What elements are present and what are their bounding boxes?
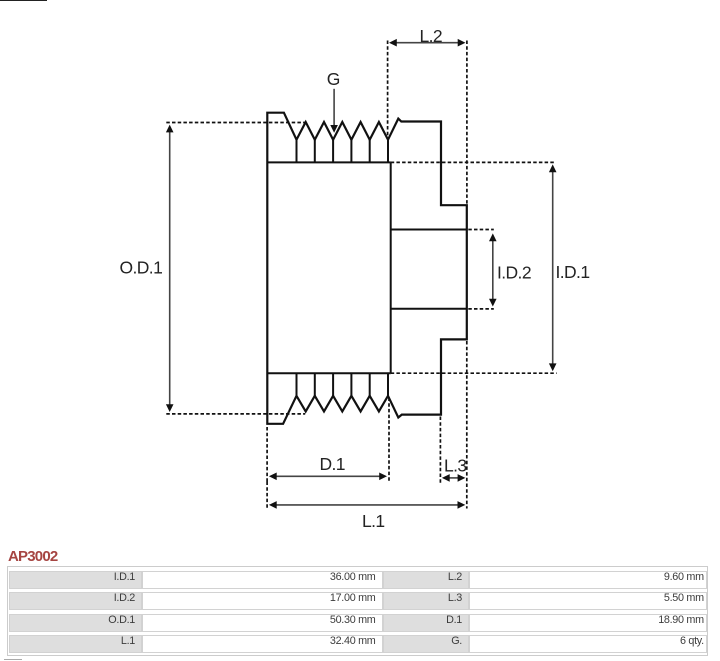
- svg-text:O.D.1: O.D.1: [120, 258, 163, 278]
- svg-text:L.3: L.3: [444, 455, 467, 475]
- svg-text:I.D.1: I.D.1: [556, 262, 590, 282]
- row 4: [9, 635, 143, 653]
- bottom-left scan artifact: [4, 659, 22, 660]
- svg-text:L.1: L.1: [362, 511, 385, 531]
- svg-text:I.D.2: I.D.2: [497, 263, 531, 283]
- row 1: [9, 571, 143, 589]
- bore lines I.D.2: [391, 230, 467, 309]
- dimension G (groove count pointer): [327, 69, 340, 133]
- svg-text:D.1: D.1: [320, 454, 345, 474]
- pulley body outline: [267, 113, 467, 424]
- dimension L.1: [267, 341, 467, 531]
- dimension I.D.1: [391, 162, 590, 373]
- dimension I.D.2: [468, 230, 531, 309]
- data table: [7, 566, 708, 656]
- dimension O.D.1: [120, 123, 307, 414]
- dimension D.1: [267, 398, 389, 482]
- dimension L.2: [388, 26, 467, 205]
- svg-text:L.2: L.2: [420, 26, 443, 46]
- rib base lines and groove verticals: [267, 140, 467, 396]
- svg-text:G: G: [327, 69, 340, 89]
- top-left scan artifact bar: [0, 0, 47, 1]
- dimension L.3: [440, 417, 466, 484]
- row 3: [9, 614, 143, 632]
- part number title: [8, 548, 57, 565]
- row 2: [9, 592, 143, 610]
